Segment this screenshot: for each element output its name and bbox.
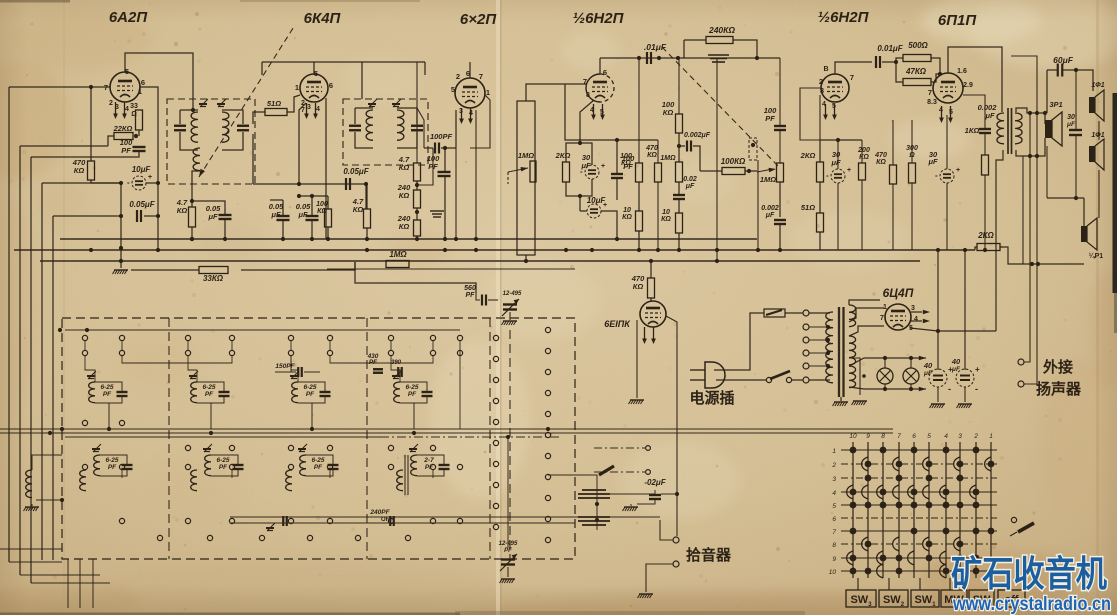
node grid junction xyxy=(89,85,93,89)
rotary switch lever symbol xyxy=(1011,517,1016,522)
terminal 3 xyxy=(803,337,809,343)
svg-text:470: 470 xyxy=(874,152,887,159)
pilot lamp 1 xyxy=(877,368,893,384)
svg-text:6-25: 6-25 xyxy=(303,384,316,391)
bus C y261 xyxy=(40,260,920,262)
trimmer hatch under 240K xyxy=(708,55,729,62)
svg-text:6Ц4П: 6Ц4П xyxy=(883,286,914,300)
switch contacts row E xyxy=(119,518,462,523)
wires rowB down to coils xyxy=(85,356,95,382)
terminal ext speaker 2 xyxy=(1018,381,1024,387)
svg-text:2.9: 2.9 xyxy=(963,82,973,89)
heater pins U7 xyxy=(644,327,646,340)
wire pin6 right down xyxy=(140,87,158,140)
output transformer T3 primary xyxy=(997,113,1004,144)
wire 4.7K junction to 100PF xyxy=(417,148,433,185)
wire x658 vertical xyxy=(657,140,659,163)
svg-text:-: - xyxy=(127,178,130,187)
svg-text:-: - xyxy=(975,384,978,394)
svg-text:КΩ: КΩ xyxy=(876,159,886,166)
heater pins U1 xyxy=(115,102,117,115)
svg-text:0.002: 0.002 xyxy=(761,205,779,212)
svg-text:6: 6 xyxy=(832,516,836,523)
svg-text:1МΩ: 1МΩ xyxy=(760,175,776,184)
ground pickup xyxy=(639,593,653,595)
ground cap1 xyxy=(931,403,945,405)
svg-text:3: 3 xyxy=(911,305,915,312)
node 10uF left xyxy=(119,181,123,185)
svg-text:100: 100 xyxy=(316,201,328,208)
svg-text:500Ω: 500Ω xyxy=(908,41,928,50)
wire grid left rail xyxy=(9,86,110,88)
svg-text:外接: 外接 xyxy=(1042,358,1073,376)
wire left vertical x9 xyxy=(8,87,10,562)
svg-text:0.02: 0.02 xyxy=(683,176,697,183)
wire left vertical x53 xyxy=(52,216,54,560)
svg-text:3: 3 xyxy=(832,476,836,483)
tuning gang dashed diagonal left xyxy=(199,25,295,177)
wire x1030 down to ext terminal xyxy=(1024,113,1030,362)
capacitor T2 left xyxy=(349,125,361,127)
switch contacts row B xyxy=(82,350,462,355)
bus nodes xyxy=(190,237,194,241)
svg-text:6: 6 xyxy=(912,433,916,440)
wire x476 from tube down xyxy=(475,110,477,239)
svg-text:2КΩ: 2КΩ xyxy=(977,231,994,240)
wire bottom left verticals xyxy=(67,559,69,608)
coil L2 with trimmer xyxy=(190,371,198,379)
staircase wire y183 10uF rail xyxy=(42,182,121,184)
fuse xyxy=(764,309,785,317)
svg-text:6×2П: 6×2П xyxy=(460,11,497,28)
switch lever bar xyxy=(599,466,614,475)
wire 240K loop xyxy=(684,39,706,41)
svg-text:30: 30 xyxy=(1067,114,1075,121)
coil L1 with trimmer xyxy=(88,371,96,379)
tube U5 6N2P-b xyxy=(821,74,849,102)
svg-text:4: 4 xyxy=(914,316,918,323)
svg-text:+: + xyxy=(603,202,607,209)
svg-text:-02μF: -02μF xyxy=(644,478,666,487)
svg-text:33: 33 xyxy=(130,103,138,110)
wire U5 left rail xyxy=(819,95,821,140)
T4 secondary HV xyxy=(849,305,856,327)
tube U3 6x2P xyxy=(455,78,485,108)
power plug xyxy=(705,362,725,388)
T4 secondary mid xyxy=(849,336,856,365)
transformer T4 primary xyxy=(826,312,833,383)
svg-text:10: 10 xyxy=(849,433,857,440)
svg-text:PF: PF xyxy=(425,464,434,471)
wire 33ohm to 22K row xyxy=(138,130,140,136)
wire T3 secondary to speaker 3P1 xyxy=(1016,108,1045,124)
wire horizontals in box xyxy=(65,329,460,331)
svg-text:0.01μF: 0.01μF xyxy=(877,44,903,53)
svg-text:PF: PF xyxy=(108,464,117,471)
wire 10uF right xyxy=(146,182,158,184)
switch matrix column wires xyxy=(853,442,991,578)
svg-text:КΩ: КΩ xyxy=(622,214,632,221)
resistor 33ohm cathode xyxy=(136,110,143,130)
heater wires xyxy=(849,358,926,366)
svg-text:7: 7 xyxy=(928,88,932,97)
wires left verticals into box xyxy=(0,548,62,550)
svg-text:3: 3 xyxy=(958,433,962,440)
heater pins U4 xyxy=(593,104,595,116)
svg-text:1: 1 xyxy=(295,83,299,92)
terminal 4 xyxy=(803,350,809,356)
svg-text:2: 2 xyxy=(819,77,823,86)
T3 core xyxy=(1007,108,1009,154)
dashed divider x169 xyxy=(168,318,170,559)
capacitor T1 right xyxy=(237,125,249,127)
svg-text:扬声器: 扬声器 xyxy=(1036,380,1082,398)
svg-text:240КΩ: 240КΩ xyxy=(708,25,735,35)
wire B+ rail y331 xyxy=(910,328,996,331)
svg-text:4: 4 xyxy=(316,106,320,113)
svg-text:1Ф1: 1Ф1 xyxy=(1091,82,1104,89)
dashed pot coupling box xyxy=(749,138,757,160)
wire left vertical x20 xyxy=(19,146,21,575)
svg-text:6-25: 6-25 xyxy=(216,457,229,464)
svg-text:22КΩ: 22КΩ xyxy=(113,124,133,133)
wire 60uF left xyxy=(1047,69,1058,71)
svg-text:PF: PF xyxy=(408,391,417,398)
switch box 2 xyxy=(879,590,908,607)
wire x1023 vertical xyxy=(1022,156,1024,264)
svg-text:+: + xyxy=(601,163,605,170)
svg-text:КΩ: КΩ xyxy=(177,206,188,215)
bus D y269 partial xyxy=(327,268,575,270)
svg-text:1: 1 xyxy=(486,88,490,97)
T3 secondary xyxy=(1015,113,1022,144)
wire gang bottom up xyxy=(507,437,509,548)
svg-text:μF: μF xyxy=(765,212,775,219)
wire U4 grid left xyxy=(565,83,586,85)
svg-text:6П1П: 6П1П xyxy=(938,12,977,29)
wire U5 plate top to y62 xyxy=(835,62,872,74)
wire U3 right pin down xyxy=(455,110,457,148)
svg-text:1МΩ: 1МΩ xyxy=(389,250,407,259)
svg-text:КΩ: КΩ xyxy=(353,205,364,214)
svg-text:1КΩ: 1КΩ xyxy=(965,126,980,135)
fold crease vertical center xyxy=(496,0,500,615)
trimmer marks T2 xyxy=(369,99,377,107)
svg-text:КΩ: КΩ xyxy=(621,160,631,167)
svg-text:6К4П: 6К4П xyxy=(304,10,342,27)
plate rail y58 xyxy=(600,57,780,59)
wire plug bottom to switch xyxy=(716,379,766,381)
svg-text:60μF: 60μF xyxy=(1053,55,1074,65)
coil L6b lower winding xyxy=(191,470,197,491)
svg-text:8.3: 8.3 xyxy=(927,99,937,106)
edge vignette xyxy=(0,0,1,1)
svg-text:PF: PF xyxy=(765,114,775,123)
terminal pickup 1 xyxy=(673,537,679,543)
wire 22K left end down xyxy=(108,136,114,146)
svg-text:40: 40 xyxy=(951,357,961,366)
wire y283 to gang xyxy=(470,283,476,293)
wire U4 cathode xyxy=(580,100,594,143)
bus A y239 xyxy=(60,238,757,240)
wire T3 primary bottom B+ xyxy=(996,150,1003,331)
switch box 4 xyxy=(941,590,967,607)
svg-text:PF: PF xyxy=(103,391,112,398)
wire 100PF bottom xyxy=(137,151,139,157)
coil L3 with trimmer xyxy=(291,371,299,379)
wire U3 top xyxy=(469,62,471,78)
svg-text:μF: μF xyxy=(927,157,938,166)
dashed divider x490 xyxy=(489,318,491,559)
node y184 right xyxy=(364,182,368,186)
svg-text:PF: PF xyxy=(314,464,323,471)
wire cap right xyxy=(144,215,158,217)
wire x717 vertical xyxy=(716,58,718,261)
wire y184 AVC rail xyxy=(253,183,366,185)
T4 secondary heater xyxy=(849,366,856,388)
svg-text:7: 7 xyxy=(583,77,587,86)
svg-text:拾音器: 拾音器 xyxy=(686,546,732,564)
svg-text:150PF: 150PF xyxy=(275,363,295,370)
bus junction dots band box xyxy=(48,431,52,435)
svg-text:6-25: 6-25 xyxy=(405,384,418,391)
capacitor small lower mid xyxy=(282,516,284,526)
wire left vertical x31 xyxy=(30,157,32,583)
trimmer marks T1 xyxy=(200,99,208,107)
stems matrix to SW boxes xyxy=(857,578,859,590)
tube U1 6A2P xyxy=(110,72,140,102)
lamp connection wires xyxy=(884,358,886,368)
svg-text:5: 5 xyxy=(451,85,455,94)
svg-text:-: - xyxy=(935,171,938,180)
wiper arrow into 1M pot xyxy=(757,169,773,172)
line filter caps xyxy=(578,490,610,498)
svg-text:PF: PF xyxy=(219,464,228,471)
svg-text:КΩ: КΩ xyxy=(399,222,410,231)
wire U7 to ground xyxy=(636,320,638,398)
wire x780 vertical xyxy=(779,58,781,126)
switch box 6 xyxy=(998,590,1025,607)
node 0.05 left xyxy=(119,214,123,218)
coil T1 primary xyxy=(191,112,198,142)
wires terminals to primary xyxy=(809,326,828,328)
switch contacts column x548 xyxy=(545,327,550,542)
svg-text:КΩ: КΩ xyxy=(399,163,410,172)
core hatch unit 4 row2 xyxy=(405,455,408,495)
svg-text:2: 2 xyxy=(973,433,978,440)
wire 470K bottom to 10uF row xyxy=(91,180,121,183)
node T1 top xyxy=(191,108,195,112)
svg-text:5: 5 xyxy=(832,503,836,510)
wire U2 cathode verticals xyxy=(299,103,306,184)
switch contacts row F xyxy=(157,535,410,540)
wires T2 interior xyxy=(355,107,373,109)
svg-text:2: 2 xyxy=(109,100,113,107)
wire 60uF right xyxy=(1062,70,1093,91)
wire x1076 через 30uF xyxy=(1075,70,1077,130)
svg-text:100PF: 100PF xyxy=(430,132,453,141)
svg-text:μF: μF xyxy=(685,183,695,190)
coil L7 with trimmer xyxy=(299,444,307,452)
svg-text:6А2П: 6А2П xyxy=(109,9,149,26)
ground -02uF xyxy=(630,504,632,506)
scan edge bottom xyxy=(0,613,460,615)
dashed divider x510 xyxy=(509,330,511,559)
wire x121 vertical to ground xyxy=(120,183,122,268)
ground U7 xyxy=(630,399,644,401)
svg-text:8: 8 xyxy=(586,92,590,99)
svg-text:μF: μF xyxy=(270,210,281,219)
svg-text:9: 9 xyxy=(866,433,870,440)
switch box 3 xyxy=(911,590,939,607)
svg-text:33КΩ: 33КΩ xyxy=(203,274,224,283)
coil L5b lower winding xyxy=(80,470,86,491)
wire x366 vertical xyxy=(365,184,367,209)
ground cap2 xyxy=(958,403,972,405)
bus B y250 xyxy=(14,249,975,251)
staircase wire y146 xyxy=(20,145,108,147)
svg-text:6ЕІПК: 6ЕІПК xyxy=(604,319,631,329)
wire magic eye to pickup vertical xyxy=(666,316,677,536)
resistor 22K horizontal xyxy=(114,133,133,140)
staircase wire y157 xyxy=(31,156,137,158)
svg-text:560: 560 xyxy=(464,285,476,292)
pilot lamp 2 xyxy=(903,368,919,384)
switch matrix contact dots xyxy=(850,447,995,575)
svg-text:ОFF: ОFF xyxy=(381,517,393,523)
capacitor T1 left xyxy=(174,125,186,127)
wire y264 nodes xyxy=(1030,262,1034,266)
wire x938 vertical xyxy=(937,250,939,370)
svg-text:КΩ: КΩ xyxy=(399,191,410,200)
svg-text:КΩ: КΩ xyxy=(663,108,674,117)
coil L4 with trimmer xyxy=(393,371,401,379)
svg-text:-: - xyxy=(826,171,829,180)
svg-text:电源插: 电源插 xyxy=(689,389,734,407)
wire x456 to bus xyxy=(455,148,457,239)
svg-text:40: 40 xyxy=(923,361,933,370)
wire pot bottom xyxy=(525,255,527,260)
switch box 1 xyxy=(846,590,876,607)
switch contacts row D xyxy=(82,464,462,469)
wire y56 to x1037 xyxy=(1011,56,1037,113)
svg-text:9: 9 xyxy=(832,556,836,563)
svg-text:12-495: 12-495 xyxy=(503,291,522,297)
svg-text:2КΩ: 2КΩ xyxy=(555,151,571,160)
wire U5 grid from pot xyxy=(800,88,821,140)
svg-text:51Ω: 51Ω xyxy=(801,203,815,212)
wire x758 vertical xyxy=(757,160,759,250)
svg-text:10: 10 xyxy=(662,209,670,216)
coil L8 with trimmer xyxy=(410,444,418,452)
svg-text:¼Р1: ¼Р1 xyxy=(1089,252,1104,260)
svg-text:PF: PF xyxy=(121,146,131,155)
svg-text:www.crystalradio.cn: www.crystalradio.cn xyxy=(952,594,1111,615)
wires caps to ground xyxy=(937,387,939,402)
dash-dot switch link 1 xyxy=(594,447,645,449)
wire top rail over 6K4P to 6x2P xyxy=(262,61,425,63)
antenna coil bottom left xyxy=(26,470,32,498)
speaker 4P1 xyxy=(1081,226,1087,242)
wire 51ohm left to T1 xyxy=(253,112,265,124)
heater pins U2 xyxy=(306,103,308,115)
svg-text:0.05μF: 0.05μF xyxy=(343,167,369,176)
svg-text:1.6: 1.6 xyxy=(957,68,967,75)
IF transformer T1 dashed box xyxy=(167,99,255,184)
svg-text:3: 3 xyxy=(307,104,311,111)
svg-text:+: + xyxy=(956,167,960,174)
speaker 3P1 xyxy=(1045,120,1052,138)
svg-text:1: 1 xyxy=(989,433,993,440)
svg-text:6: 6 xyxy=(141,78,145,87)
heater pins U3 xyxy=(461,108,463,120)
wire U8 pins right xyxy=(911,311,922,313)
dashed divider x367 xyxy=(366,318,368,559)
svg-text:4: 4 xyxy=(125,106,129,113)
svg-text:200: 200 xyxy=(857,147,870,154)
wires T1 interior xyxy=(179,110,181,124)
switch box 5 xyxy=(969,590,994,607)
terminal 2 xyxy=(803,324,809,330)
band switch dashed box outer xyxy=(62,318,575,559)
IF transformer T2 dashed box xyxy=(343,99,428,165)
svg-text:47КΩ: 47КΩ xyxy=(905,67,927,76)
box top rail dots xyxy=(58,328,62,332)
svg-text:3Р1: 3Р1 xyxy=(1049,100,1062,109)
svg-text:μF: μF xyxy=(207,212,218,221)
tube U2 6K4P xyxy=(300,74,328,102)
svg-text:2КΩ: 2КΩ xyxy=(800,151,816,160)
wire U6 plate to transformer xyxy=(948,47,1002,112)
svg-text:+: + xyxy=(847,167,851,174)
tube U4 6N2P-a xyxy=(586,74,600,102)
T4 core ground xyxy=(840,397,842,401)
svg-text:1: 1 xyxy=(832,448,836,455)
svg-text:6-25: 6-25 xyxy=(105,457,118,464)
bus wires band switch xyxy=(0,428,893,430)
wire T2 primary top to plate rail xyxy=(361,62,363,99)
heater pins U6 xyxy=(941,106,943,119)
svg-text:μF: μF xyxy=(1066,121,1076,128)
coil L8b lower winding xyxy=(397,470,403,491)
switch matrix row wires xyxy=(841,450,997,571)
svg-text:μF: μF xyxy=(923,370,933,377)
switch matrix row headers xyxy=(829,448,837,576)
coil L7b lower winding xyxy=(286,470,292,491)
svg-text:1: 1 xyxy=(138,87,142,96)
svg-text:.01μF: .01μF xyxy=(644,42,667,52)
wire pot top to grid rail xyxy=(526,84,565,101)
svg-text:½6Н2П: ½6Н2П xyxy=(573,10,625,27)
svg-text:КΩ: КΩ xyxy=(633,282,644,291)
svg-text:PF: PF xyxy=(306,391,315,398)
svg-text:8: 8 xyxy=(881,433,885,440)
svg-text:PF: PF xyxy=(369,359,378,366)
wire pickup1 left xyxy=(660,520,673,540)
wire filter to -02 xyxy=(548,475,597,530)
tuning gang dashed diagonal mid xyxy=(662,47,780,168)
terminal pickup 2 xyxy=(673,561,679,567)
coil T1 secondary xyxy=(222,112,229,142)
heater pins U5 xyxy=(825,104,827,116)
svg-text:4: 4 xyxy=(832,490,836,497)
wire grid rail y140 xyxy=(565,84,658,140)
top edge nicks xyxy=(0,0,70,3)
svg-text:2-7: 2-7 xyxy=(423,457,434,464)
node 22K right xyxy=(134,134,138,138)
wires rowD to coils row2 xyxy=(121,470,123,478)
trimmer arrow lower mid xyxy=(267,523,275,531)
